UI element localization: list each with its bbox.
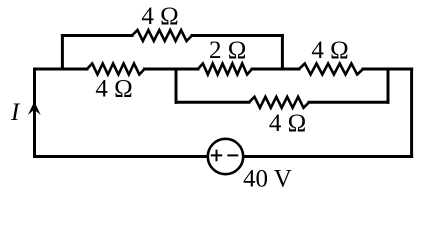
resistor R2 4ohm middle-left xyxy=(87,64,145,75)
wire top loop left vertical xyxy=(61,36,64,70)
wire lower loop left vertical xyxy=(175,69,178,102)
wire bottom right segment xyxy=(243,155,412,158)
wire lower rail right segment xyxy=(309,101,388,104)
wire bottom left segment xyxy=(35,155,209,158)
resistor R4 4ohm middle-right xyxy=(299,64,363,75)
svg-text:4 Ω: 4 Ω xyxy=(269,110,306,137)
wire left vertical main xyxy=(33,69,36,157)
wire right vertical main xyxy=(410,69,413,157)
svg-text:40 V: 40 V xyxy=(243,166,292,193)
svg-text:4 Ω: 4 Ω xyxy=(95,76,132,103)
wire lower rail left segment xyxy=(176,101,249,104)
voltage source plus sign xyxy=(211,150,222,162)
resistor R5 4ohm lower branch xyxy=(249,97,309,108)
wire top loop right vertical xyxy=(281,36,284,70)
svg-text:4 Ω: 4 Ω xyxy=(141,3,178,30)
svg-text:I: I xyxy=(10,99,21,126)
wire top rail right segment xyxy=(192,34,282,37)
wire middle rail segment 3 xyxy=(252,68,299,71)
current arrowhead xyxy=(28,102,41,116)
voltage source minus sign xyxy=(227,154,238,156)
resistor R1 4ohm top xyxy=(132,30,192,41)
wire middle rail segment 2 xyxy=(145,68,199,71)
svg-text:4 Ω: 4 Ω xyxy=(311,37,348,64)
wire lower loop right vertical xyxy=(387,69,390,102)
resistor R3 2ohm middle xyxy=(198,64,252,75)
svg-text:2 Ω: 2 Ω xyxy=(209,37,246,64)
wire middle rail segment 4 xyxy=(363,68,412,71)
wire middle rail segment 1 xyxy=(35,68,88,71)
voltage source V1 circle xyxy=(208,139,243,174)
wire top rail left segment xyxy=(62,34,132,37)
